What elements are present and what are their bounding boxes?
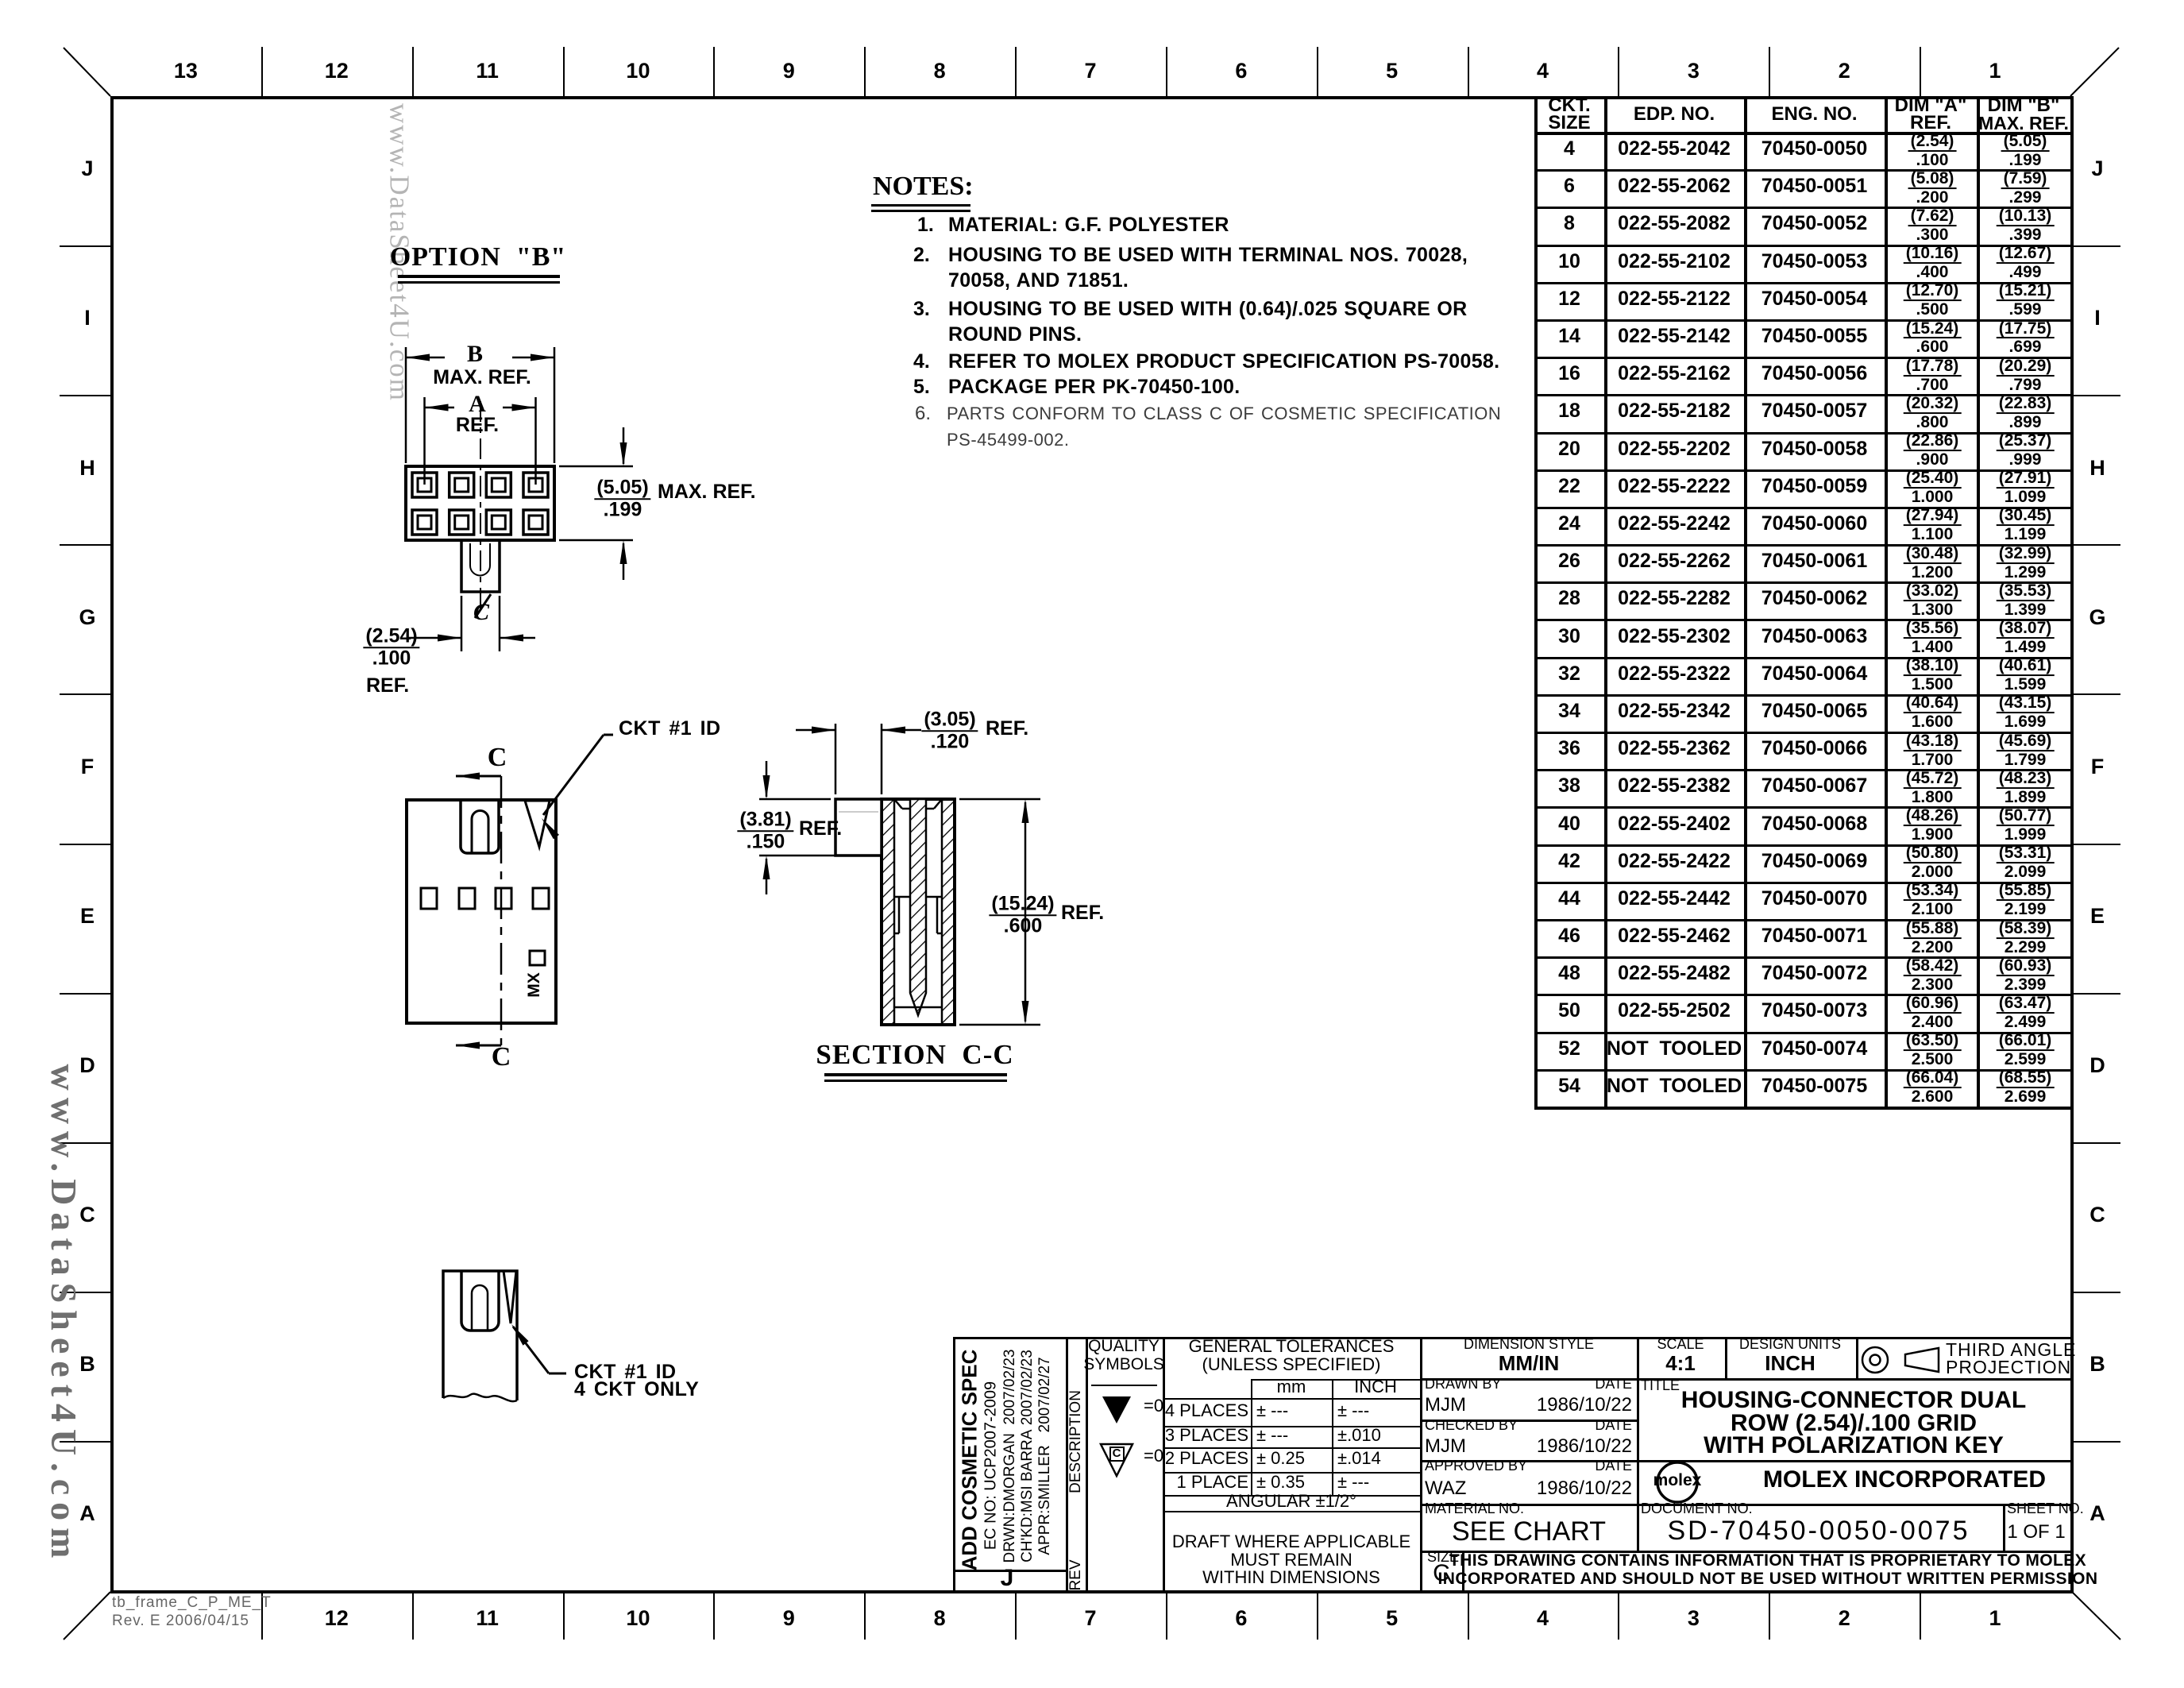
dim text (2.54) — [363, 627, 419, 668]
dim text B — [467, 342, 483, 367]
side view body — [407, 800, 556, 1023]
option B polarization tab — [461, 542, 500, 592]
dimension (5.05)/.199 MAX. REF. — [559, 427, 633, 580]
notes list — [917, 214, 934, 235]
dim text A — [469, 392, 486, 417]
third angle projection symbol — [1862, 1347, 1888, 1373]
dimension (3.81)/.150 REF. — [759, 761, 878, 894]
dimension (15.24)/.600 REF. — [959, 799, 1040, 1025]
quality symbol C triangle — [1101, 1444, 1133, 1476]
proprietary note — [1449, 1552, 2086, 1570]
document no — [2003, 1504, 2005, 1551]
parts table — [1534, 96, 2070, 99]
MX text — [526, 972, 543, 998]
sheet border frame — [110, 96, 2074, 99]
title text — [1641, 1378, 1680, 1393]
ckt 1 id triangle — [525, 801, 550, 847]
dim text (3.81) — [737, 810, 793, 852]
grid column labels — [174, 60, 198, 82]
detail leader — [511, 1324, 566, 1373]
dimension style / drawn by column — [1420, 1378, 2070, 1381]
ckt id text — [619, 718, 721, 739]
table header — [1548, 95, 1590, 115]
detail key slot — [461, 1271, 499, 1331]
grid column ticks top/bottom — [261, 47, 263, 96]
ckt 1 id leader — [542, 735, 613, 839]
title block outline — [953, 1337, 2070, 1339]
centerline symbol — [473, 594, 491, 625]
scale / design units / third angle — [1725, 1337, 1727, 1378]
dim text (3.05) — [921, 710, 978, 751]
notes title — [873, 172, 974, 201]
detail ckt text — [574, 1362, 677, 1382]
option B centerline — [480, 401, 481, 612]
section C-C body — [882, 799, 955, 1025]
dim text (15.24) — [989, 894, 1056, 936]
frame id text bottom-left — [112, 1595, 272, 1611]
revision block — [953, 1570, 1066, 1572]
side view key slot — [461, 800, 499, 853]
dimension B MAX. REF. — [406, 347, 554, 463]
side view pin slots — [421, 888, 549, 965]
section step block — [835, 799, 882, 856]
detail view 4 ckt only body — [443, 1271, 517, 1401]
table rows — [1564, 138, 1575, 159]
OPTION B title — [390, 243, 567, 272]
watermark vertical top-left — [384, 103, 414, 402]
detail triangle — [504, 1271, 516, 1323]
general tolerances box — [1189, 1337, 1395, 1355]
dimension (3.05)/.120 REF. — [796, 724, 921, 794]
dim text (5.05) — [594, 478, 650, 520]
quality symbols box — [1088, 1338, 1160, 1355]
side view C labels — [488, 744, 507, 772]
dimension A REF. — [425, 397, 536, 485]
option B connector top view body — [406, 466, 554, 540]
dimension (2.54)/.100 REF. — [407, 596, 535, 651]
SECTION C-C title — [816, 1041, 1013, 1070]
grid row ticks left/right — [60, 245, 110, 247]
watermark vertical left — [44, 1064, 83, 1566]
size cell — [1462, 1551, 1464, 1590]
section cut line C-C — [456, 773, 501, 1049]
quality symbol filled triangle — [1102, 1396, 1131, 1423]
grid row labels — [81, 157, 93, 180]
